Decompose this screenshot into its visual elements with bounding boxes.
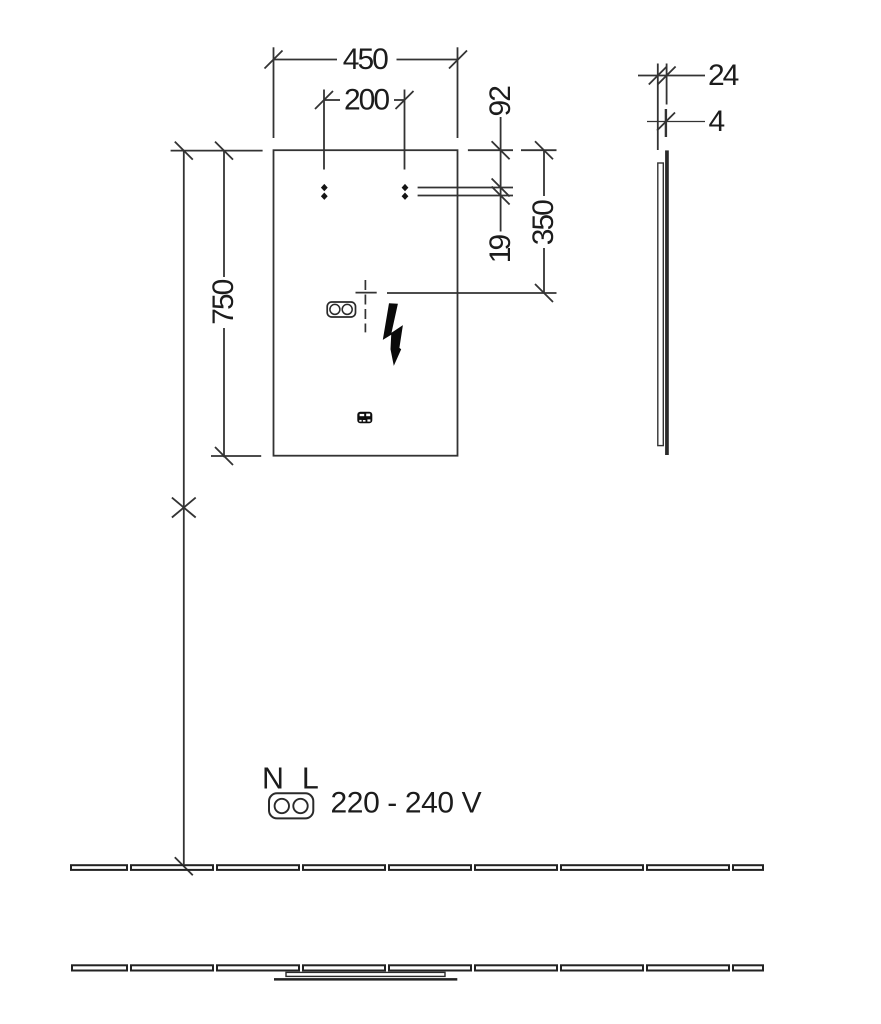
svg-text:200: 200: [344, 84, 389, 117]
svg-text:220 - 240 V: 220 - 240 V: [331, 787, 482, 820]
svg-text:N: N: [262, 762, 284, 796]
svg-text:19: 19: [484, 235, 517, 264]
svg-text:24: 24: [708, 59, 739, 92]
svg-text:4: 4: [709, 105, 725, 138]
svg-text:L: L: [302, 762, 319, 796]
svg-text:350: 350: [527, 200, 560, 245]
svg-text:750: 750: [207, 279, 240, 324]
svg-text:92: 92: [484, 86, 517, 117]
svg-text:450: 450: [343, 43, 388, 76]
